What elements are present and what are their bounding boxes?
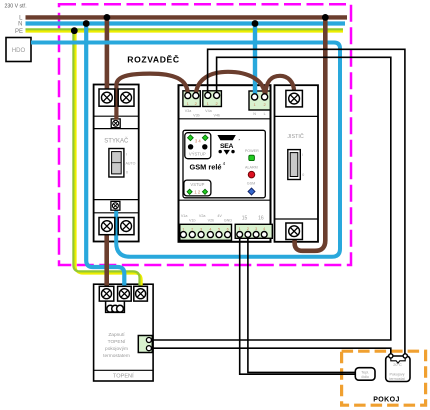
JISTIC switch [288, 150, 305, 180]
distribution board boundary ROZVADEC (magenta dashed) [59, 4, 351, 265]
svg-text:V3a: V3a [185, 109, 193, 113]
svg-text:N: N [253, 112, 256, 116]
GSM VSTUP box [184, 180, 211, 196]
wire TOPENI terminal b to thermostat T1 (black) [152, 348, 390, 354]
svg-text:JISTIČ: JISTIČ [287, 133, 304, 140]
svg-text:termostat: termostat [389, 377, 404, 381]
svg-text:GSM relé: GSM relé [190, 162, 222, 171]
HDO box [6, 38, 31, 62]
module JISTIC outline [275, 85, 319, 242]
svg-text:čidlo: čidlo [361, 375, 369, 379]
bus PE yellow part [26, 30, 344, 32]
svg-text:20°C: 20°C [393, 363, 402, 367]
GSM VYSTUP box [185, 133, 211, 159]
STYKAC separator line top 2 [94, 128, 139, 130]
thermostat Pokojovy termostat [386, 354, 410, 382]
STYKAC bottom terminal 1 [99, 218, 115, 235]
svg-text:15: 15 [242, 216, 248, 222]
svg-text:I: I [302, 153, 303, 157]
svg-text:termostatem: termostatem [103, 353, 130, 359]
svg-text:2: 2 [247, 227, 249, 231]
STYKAC separator line bottom 1 [94, 199, 139, 201]
wire STYKAC out to TOPENI t1 (brown) [104, 228, 109, 290]
GSM block V4 screws [205, 92, 211, 98]
node PE junction [71, 27, 78, 34]
TOPENI heater coil [106, 302, 125, 313]
wire L drop to STYKAC top left terminal (brown) [105, 17, 110, 92]
STYKAC separator line top [94, 115, 139, 117]
GSM separator line bottom [179, 199, 271, 201]
svg-text:POKOJ: POKOJ [373, 396, 400, 403]
TOPENI terminal 2 [118, 286, 132, 301]
JISTIC separator line top [275, 115, 319, 117]
wire temperature sensor 1 (black) [240, 234, 356, 374]
svg-text:V3b: V3b [193, 114, 200, 118]
wire arc STYKAC top right to GSM V3a (brown) [116, 74, 187, 120]
svg-text:ALARM: ALARM [245, 166, 258, 170]
svg-text:Pokojový: Pokojový [390, 372, 405, 376]
svg-text:TOPENÍ: TOPENÍ [113, 373, 134, 380]
JISTIC top terminal [286, 90, 303, 107]
svg-text:Tepl.: Tepl. [361, 370, 369, 374]
svg-text:V1b: V1b [189, 219, 196, 223]
JISTIC bottom terminal [286, 223, 303, 240]
wire N drop to TOPENI t2 (cyan) [86, 24, 124, 290]
svg-text:16: 16 [258, 216, 264, 222]
TOPENI terminal block (green) [138, 336, 152, 353]
bus N (cyan) [26, 21, 346, 25]
svg-text:PE: PE [15, 29, 23, 35]
node N junction 2 [252, 20, 259, 27]
svg-text:1 2: 1 2 [194, 190, 200, 195]
svg-text:ROZVADĚČ: ROZVADĚČ [127, 54, 179, 65]
STYKAC coil terminal A2 [111, 201, 120, 210]
svg-text:SEA: SEA [220, 143, 233, 150]
GSM top terminal block N L [249, 91, 270, 110]
GSM top terminal block V3 [183, 91, 200, 107]
module STYKAC outline [94, 85, 139, 242]
wire temperature sensor 2 (black) [248, 234, 356, 372]
GSM block N L screws [252, 94, 258, 100]
GSM front panel [183, 130, 265, 198]
GSM separator line top [179, 118, 271, 120]
svg-text:GND: GND [224, 219, 233, 223]
svg-text:V2b: V2b [208, 219, 215, 223]
STYKAC switch [109, 149, 136, 178]
bus L (brown) [26, 15, 348, 19]
svg-text:0: 0 [302, 173, 304, 177]
svg-text:VÝSTUP: VÝSTUP [189, 151, 206, 156]
GSM bottom right block screws 1 2 [237, 232, 243, 238]
GSM top terminal block V4 [203, 91, 222, 107]
wire arc GSM L to JISTIC top (brown) [265, 76, 294, 95]
JISTIC separator line bottom [275, 218, 319, 220]
svg-text:L: L [264, 112, 266, 116]
svg-text:4V: 4V [217, 214, 222, 218]
box TOPENI outline [94, 284, 154, 381]
svg-text:0: 0 [126, 171, 128, 175]
SEA logo [217, 135, 240, 155]
svg-text:pokojovým: pokojovým [105, 346, 128, 352]
wire PE drop to TOPENI t3 (green inner) [73, 29, 139, 289]
svg-text:3: 3 [255, 227, 257, 231]
node L junction 1 [104, 14, 111, 21]
room boundary POKOJ (orange dashed) [342, 351, 426, 405]
TOPENI terminal 1 [99, 286, 114, 301]
bus PE green part [26, 28, 344, 30]
svg-text:N: N [18, 22, 22, 28]
node N junction 1 [83, 20, 90, 27]
svg-text:GSM: GSM [247, 182, 255, 186]
GSM bottom terminal block right (15 16) [235, 224, 272, 238]
sensor Tepl. cidlo [355, 368, 375, 381]
svg-text:Zapnutí: Zapnutí [108, 332, 125, 338]
svg-text:VSTUP: VSTUP [190, 182, 204, 187]
STYKAC coil terminal A1 [111, 119, 120, 128]
svg-text:STYKAČ: STYKAČ [104, 138, 129, 145]
svg-text:I: I [126, 153, 127, 157]
TOPENI terminal 3 [134, 286, 148, 301]
svg-text:AUTO: AUTO [126, 161, 136, 165]
svg-text:TOPENÍ: TOPENÍ [108, 338, 126, 345]
svg-text:POWER: POWER [245, 149, 259, 153]
wire thermostat loop inner: GSM V4b to TOPENI terminal a (black) [152, 57, 390, 340]
svg-text:3 4: 3 4 [195, 139, 201, 144]
module GSM rele outline [179, 85, 271, 242]
node L junction 2 [322, 14, 329, 21]
svg-text:HDO: HDO [12, 48, 26, 54]
STYKAC top terminal 1 [99, 89, 115, 106]
wire thermostat loop outer: GSM V4a up right down to thermostat T2 (black) [208, 49, 405, 354]
svg-text:1: 1 [239, 227, 241, 231]
wire N drop to GSM N terminal (cyan) [253, 24, 257, 98]
svg-text:V2a: V2a [199, 214, 207, 218]
GSM block V3 screws [185, 93, 191, 99]
svg-text:V4b: V4b [214, 114, 221, 118]
svg-text:230 V stř.: 230 V stř. [5, 4, 27, 10]
TOPENI label band [94, 369, 154, 371]
GSM bottom terminal block left [180, 224, 232, 240]
wire HDO signal (cyan): HDO box to right, down, left along bottom, to STYKAC A2 terminal [31, 43, 340, 257]
svg-text:V4a: V4a [205, 109, 213, 113]
svg-text:4: 4 [263, 227, 265, 231]
STYKAC separator line bottom 2 [94, 212, 139, 214]
wire L drop to JISTIC bottom terminal (brown) [295, 16, 326, 251]
svg-text:V1a: V1a [181, 214, 189, 218]
wire PE drop to TOPENI t3 (yellow outer) [76, 31, 142, 290]
STYKAC bottom terminal 2 [118, 218, 134, 235]
wire arc GSM V3b to GSM L (brown) [196, 72, 265, 96]
STYKAC top terminal 2 [118, 89, 134, 106]
